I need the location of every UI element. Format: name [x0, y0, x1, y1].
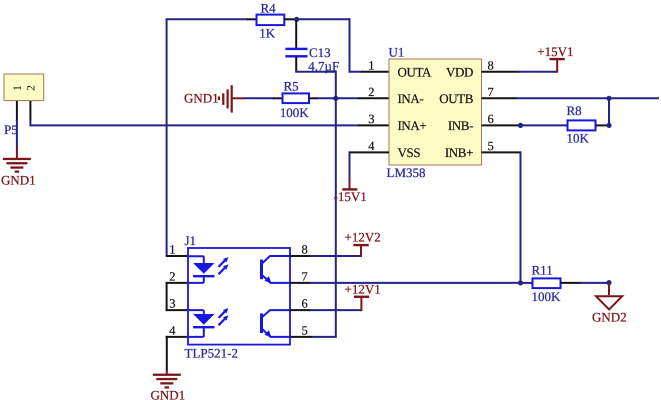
junction INB+/R11: [518, 280, 523, 285]
J1 pin number 7: [302, 270, 308, 284]
connector P5 body: [4, 74, 44, 101]
R8 value 10K: [567, 130, 590, 145]
svg-text:8: 8: [302, 243, 308, 257]
phototransistor Q2 of J1: [260, 310, 290, 337]
U1 pin number 7: [488, 85, 494, 99]
junction at R4 right / C13 top: [294, 17, 299, 22]
wire INA- down to J1 pin5: [311, 97, 336, 337]
svg-text:INA-: INA-: [398, 91, 424, 106]
ground stub GND1 at J1: [166, 371, 168, 375]
J1 pin number 4: [169, 324, 176, 338]
GND2 label: [592, 310, 627, 325]
wire corner down to OUTA: [350, 18, 363, 71]
power stub +12V1: [360, 297, 362, 311]
svg-text:1K: 1K: [259, 26, 276, 41]
svg-text:R5: R5: [284, 79, 299, 94]
U1 pin number 1: [368, 58, 374, 72]
svg-text:3: 3: [368, 112, 374, 126]
svg-text:GND1: GND1: [151, 388, 186, 400]
U1 pin name INA+: [398, 118, 427, 133]
U1 pin number 3: [368, 112, 374, 126]
U1 pin 6 stub: [482, 124, 521, 126]
J1 part value TLP521-2: [185, 346, 238, 361]
svg-text:+12V1: +12V1: [345, 282, 381, 297]
svg-text:5: 5: [488, 139, 494, 153]
resistor R8: [568, 120, 596, 130]
svg-text:GND1: GND1: [184, 91, 219, 106]
wire pin7 to R11 node (INB+ net): [310, 282, 522, 284]
wire pin8 to +12V2: [310, 255, 361, 257]
wire P5 pin2 down-right (INA+ net): [30, 120, 359, 126]
svg-text:100K: 100K: [280, 105, 310, 120]
J1 pin 2 stub: [166, 282, 187, 284]
svg-text:INB-: INB-: [448, 118, 473, 133]
wire R11 to GND2: [580, 282, 609, 284]
power stub +12V2: [360, 246, 362, 257]
svg-text:8: 8: [488, 58, 494, 72]
P5 pin 1 stub: [16, 101, 18, 121]
J1 pin 4 stub: [166, 336, 187, 338]
LED 1 of J1: [188, 256, 215, 283]
svg-text:GND1: GND1: [1, 173, 36, 188]
svg-text:R8: R8: [567, 103, 582, 118]
wire R4 left horizontal: [166, 18, 248, 20]
LED 2 of J1: [188, 310, 215, 337]
C13 label: [309, 45, 331, 60]
svg-text:OUTA: OUTA: [398, 64, 432, 79]
J1 pin number 3: [169, 297, 175, 311]
svg-text:U1: U1: [389, 45, 405, 60]
C13 value 4.7uF: [308, 58, 339, 73]
U1 pin name VSS: [398, 145, 421, 160]
J1 pin number 2: [169, 270, 175, 284]
svg-text:1: 1: [169, 243, 175, 257]
R5 label: [284, 79, 299, 94]
svg-text:5: 5: [302, 324, 308, 338]
svg-text:VSS: VSS: [398, 145, 421, 160]
svg-text:2: 2: [368, 85, 374, 99]
U1 pin name OUTA: [398, 64, 432, 79]
J1 pin 8 stub: [290, 255, 311, 257]
U1 pin 4 stub: [349, 151, 390, 153]
R8 right pin: [596, 124, 610, 126]
U1 pin 7 stub: [482, 97, 518, 99]
U1 pin 5 stub: [482, 151, 522, 153]
U1 pin number 8: [488, 58, 494, 72]
power bar +12V2: [354, 244, 369, 246]
U1 pin number 4: [368, 139, 375, 153]
R5 right pin: [309, 97, 318, 99]
svg-text:3: 3: [169, 297, 175, 311]
svg-text:4: 4: [169, 324, 176, 338]
svg-text:-15V1: -15V1: [334, 189, 367, 204]
junction INB- node: [518, 123, 523, 128]
R4 value 1K: [259, 26, 276, 41]
svg-text:TLP521-2: TLP521-2: [185, 346, 238, 361]
svg-text:INB+: INB+: [445, 145, 473, 160]
power bar -15V1: [342, 188, 357, 190]
U1 pin name INA-: [398, 91, 424, 106]
wire R5 to U1 pin2: [317, 97, 359, 99]
svg-text:6: 6: [488, 112, 494, 126]
svg-text:2: 2: [169, 270, 175, 284]
R4 label: [261, 0, 277, 15]
C13 top lead: [295, 20, 297, 48]
P5 pin 1 number: [12, 85, 24, 91]
GND1 power port label at R5: [184, 91, 219, 106]
wire GND1 to R5: [244, 97, 275, 99]
power bar +12V1: [354, 296, 369, 298]
resistor R4: [257, 15, 285, 26]
U1 pin name VDD: [446, 64, 473, 79]
svg-text:100K: 100K: [532, 289, 562, 304]
junction GND2 node: [606, 280, 611, 285]
J1 pin 6 stub: [290, 309, 311, 311]
P5 pin 2 number: [26, 85, 38, 91]
+12V1 label: [345, 282, 381, 297]
resistor R5: [283, 93, 310, 103]
R11 right pin: [561, 282, 582, 284]
U1 pin 1 stub: [361, 71, 389, 73]
wire INB+ down to R11 node: [520, 151, 522, 283]
R4 right pin: [284, 18, 297, 20]
svg-text:4: 4: [368, 139, 375, 153]
GND1 label at P5: [1, 173, 36, 188]
U1 designator: [389, 45, 405, 60]
wire shorting J1 pins 2-3: [166, 282, 168, 311]
svg-text:1: 1: [368, 58, 374, 72]
svg-text:+15V1: +15V1: [537, 44, 573, 59]
wire R4 left vertical to J1 pin1: [166, 19, 168, 256]
P5 label: [4, 122, 18, 137]
svg-text:1: 1: [12, 85, 24, 91]
J1 pin 7 stub: [290, 282, 311, 284]
optocoupler J1 body: [188, 248, 290, 345]
wire feedback vertical: [608, 98, 610, 125]
R5 value 100K: [280, 105, 310, 120]
R11 label: [532, 263, 553, 278]
op-amp U1 body: [389, 59, 482, 165]
junction OUTB feedback: [606, 96, 611, 101]
ground GND1 port bars at R5: [218, 85, 233, 112]
P5 pin 2 stub: [29, 101, 31, 121]
U1 pin number 5: [488, 139, 494, 153]
svg-text:6: 6: [302, 297, 308, 311]
svg-text:J1: J1: [185, 233, 197, 248]
GND1 label at J1: [151, 388, 186, 400]
U1 pin number 2: [368, 85, 374, 99]
junction INA- node: [333, 96, 338, 101]
junction R8/OUTB: [606, 123, 611, 128]
ground stub GND2: [608, 283, 610, 295]
ground port stub to R5 wire: [232, 97, 245, 99]
U1 pin 8 stub: [482, 71, 520, 73]
wire VSS down: [349, 151, 351, 178]
wire C13 bottom to INA- junction: [296, 70, 336, 98]
resistor R11: [533, 278, 561, 288]
U1 pin name INB-: [448, 118, 473, 133]
J1 pin 4 to ground wire: [166, 336, 168, 372]
power stub +15V1: [556, 60, 558, 73]
capacitor C13: [285, 48, 307, 58]
svg-text:R4: R4: [261, 0, 277, 15]
LED 1 light arrows: [219, 257, 229, 274]
ground GND1 at J1: [153, 374, 181, 389]
R4 left pin: [247, 18, 257, 20]
U1 pin number 6: [488, 112, 494, 126]
LED 2 light arrows: [219, 308, 229, 325]
svg-text:R11: R11: [532, 263, 553, 278]
svg-text:2: 2: [26, 85, 38, 91]
ground GND1 at P5: [3, 158, 31, 173]
svg-text:OUTB: OUTB: [439, 91, 474, 106]
wire pin6 to +12V1: [310, 309, 362, 311]
U1 pin 3 stub: [358, 124, 389, 126]
wire OUTB to right edge: [517, 97, 660, 99]
wire R4 right to corner: [296, 18, 350, 20]
C13 bottom lead: [295, 58, 297, 71]
svg-text:7: 7: [488, 85, 494, 99]
wire INB- to R8: [521, 124, 569, 126]
svg-text:+12V2: +12V2: [345, 229, 381, 244]
U1 pin name INB+: [445, 145, 473, 160]
J1 designator: [185, 233, 197, 248]
J1 pin 3 stub: [166, 309, 187, 311]
phototransistor Q1 of J1: [260, 256, 290, 284]
R5 left pin: [273, 97, 283, 99]
R11 value 100K: [532, 289, 562, 304]
svg-text:P5: P5: [4, 122, 18, 137]
R11 left pin: [521, 282, 534, 284]
svg-text:INA+: INA+: [398, 118, 427, 133]
J1 pin number 6: [302, 297, 308, 311]
power bar +15V1: [550, 58, 565, 60]
J1 pin number 1: [169, 243, 175, 257]
J1 pin 1 stub: [166, 255, 187, 257]
J1 pin number 8: [302, 243, 308, 257]
R8 label: [567, 103, 582, 118]
ground stub GND1 at P5: [16, 147, 18, 158]
wire P5 pin1 to ground: [16, 120, 18, 148]
svg-text:GND2: GND2: [592, 310, 627, 325]
power stub -15V1: [349, 178, 351, 189]
svg-text:VDD: VDD: [446, 64, 473, 79]
svg-text:10K: 10K: [567, 130, 590, 145]
U1 pin name OUTB: [439, 91, 474, 106]
J1 pin number 5: [302, 324, 308, 338]
U1 pin 2 stub: [358, 97, 389, 99]
-15V1 label: [334, 189, 367, 204]
J1 pin 5 stub: [290, 336, 312, 338]
wire VDD to +15V1: [519, 71, 558, 73]
+12V2 label: [345, 229, 381, 244]
U1 part value LM358: [387, 165, 426, 180]
svg-text:7: 7: [302, 270, 308, 284]
ground GND2 triangle: [596, 296, 622, 309]
+15V1 label: [537, 44, 573, 59]
svg-text:LM358: LM358: [387, 165, 426, 180]
